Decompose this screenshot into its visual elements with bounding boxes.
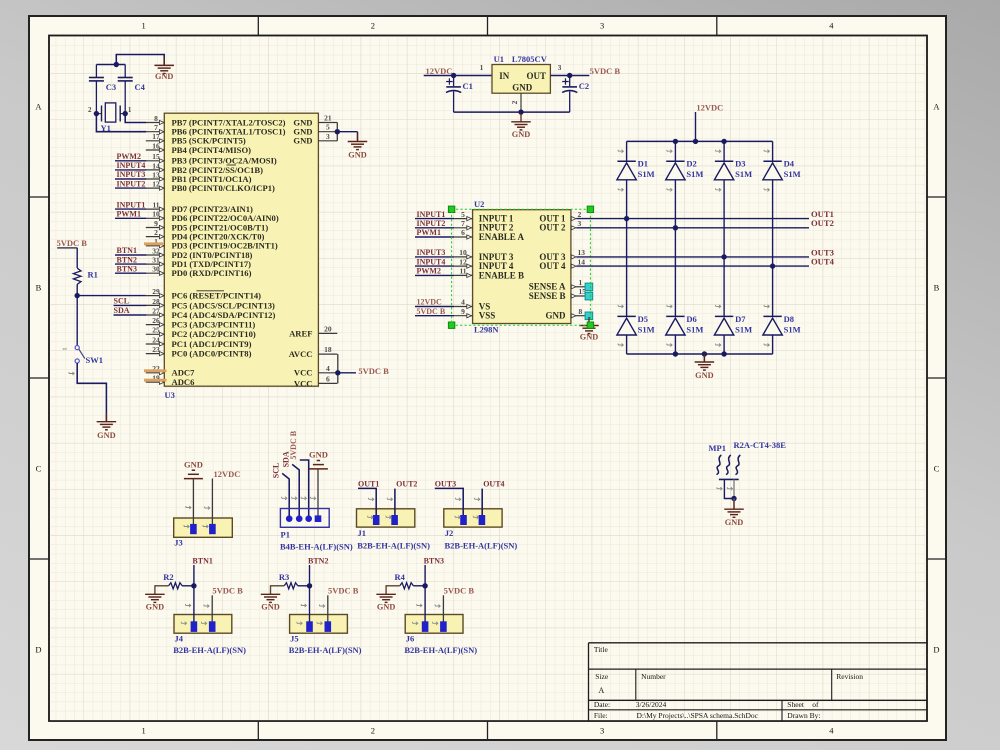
- svg-text:INPUT1: INPUT1: [117, 200, 146, 209]
- ground (P1): [309, 450, 328, 519]
- thermostat MP1 R2A-CT4-38E: [709, 440, 787, 499]
- ground (bridge): [695, 353, 715, 380]
- svg-text:30: 30: [152, 265, 160, 274]
- svg-text:PWM1: PWM1: [117, 210, 141, 219]
- svg-text:20: 20: [324, 324, 332, 333]
- U3 pin 13 PB1: [146, 170, 252, 184]
- svg-text:PD0 (RXD/PCINT16): PD0 (RXD/PCINT16): [172, 268, 252, 278]
- net label INPUT1 (U2): [415, 210, 454, 219]
- svg-text:B2B-EH-A(LF)(SN): B2B-EH-A(LF)(SN): [173, 645, 246, 655]
- wire OUT2: [576, 227, 809, 229]
- svg-text:GND: GND: [184, 459, 203, 469]
- svg-text:PC5 (ADC5/SCL/PCINT13): PC5 (ADC5/SCL/PCINT13): [172, 300, 276, 310]
- svg-text:26: 26: [152, 316, 160, 325]
- U3 pin 31 PD1: [146, 256, 251, 270]
- svg-text:C4: C4: [135, 82, 146, 92]
- net label BTN1: [192, 556, 212, 621]
- green marker squares U2: [448, 206, 593, 328]
- svg-text:12VDC: 12VDC: [214, 469, 241, 479]
- svg-text:BTN1: BTN1: [192, 556, 212, 565]
- svg-text:PWM2: PWM2: [117, 152, 141, 161]
- svg-text:Revision: Revision: [836, 672, 863, 681]
- svg-text:S1M: S1M: [735, 324, 752, 334]
- connector J1: [357, 509, 431, 551]
- U2 pin 8 GND: [546, 307, 586, 321]
- svg-text:B2B-EH-A(LF)(SN): B2B-EH-A(LF)(SN): [404, 645, 477, 655]
- svg-text:B2B-EH-A(LF)(SN): B2B-EH-A(LF)(SN): [357, 541, 430, 551]
- U3 pin 14 PB2: [146, 161, 263, 175]
- svg-text:PB4 (PCINT4/MISO): PB4 (PCINT4/MISO): [172, 145, 252, 155]
- svg-text:D8: D8: [784, 314, 794, 324]
- svg-text:of: of: [812, 700, 819, 709]
- svg-text:R1: R1: [88, 270, 98, 280]
- svg-text:4: 4: [326, 364, 330, 373]
- svg-text:L7805CV: L7805CV: [512, 54, 548, 64]
- svg-text:13: 13: [578, 248, 586, 257]
- svg-text:BTN3: BTN3: [117, 264, 137, 273]
- svg-text:11: 11: [152, 201, 159, 210]
- svg-text:C: C: [934, 464, 940, 474]
- svg-text:ADC6: ADC6: [172, 377, 196, 387]
- wire bridge columns: [627, 180, 773, 354]
- svg-text:R2: R2: [163, 572, 173, 582]
- svg-text:B2B-EH-A(LF)(SN): B2B-EH-A(LF)(SN): [445, 541, 518, 551]
- svg-text:R2A-CT4-38E: R2A-CT4-38E: [734, 440, 787, 450]
- svg-text:Drawn By:: Drawn By:: [787, 711, 820, 720]
- wire U1.OUT to 5VDC B: [550, 75, 589, 77]
- U3 pin 18 AVCC: [289, 345, 338, 359]
- ground (U1): [511, 113, 531, 139]
- U3 pin 12 PB0: [146, 180, 275, 194]
- svg-text:OUT4: OUT4: [483, 480, 504, 489]
- connector J6: [404, 604, 477, 655]
- net label BTN2: [115, 255, 146, 264]
- svg-text:VCC: VCC: [294, 368, 313, 378]
- svg-text:INPUT4: INPUT4: [417, 257, 446, 266]
- U3 pin 1 PD3: [146, 237, 278, 251]
- svg-text:GND: GND: [97, 431, 115, 440]
- junction (U3 gnd): [335, 129, 340, 134]
- net label PWM2: [115, 152, 146, 161]
- diode D3: [714, 150, 752, 192]
- U3 pin 2 PD4: [146, 228, 265, 242]
- svg-text:OUT: OUT: [527, 71, 547, 81]
- svg-text:OUT4: OUT4: [811, 257, 835, 267]
- svg-text:ENABLE B: ENABLE B: [479, 270, 524, 280]
- svg-text:12: 12: [152, 180, 160, 189]
- svg-text:PB0 (PCINT0/CLKO/ICP1): PB0 (PCINT0/CLKO/ICP1): [172, 183, 276, 193]
- U3 pin 24 PC1: [146, 335, 252, 349]
- svg-text:MP1: MP1: [709, 443, 726, 453]
- svg-text:BTN3: BTN3: [424, 556, 444, 565]
- svg-text:S1M: S1M: [686, 169, 703, 179]
- U2 pin 9 VSS: [454, 307, 495, 321]
- microcontroller U3 ATmega328: [146, 113, 337, 400]
- net label INPUT2: [115, 179, 146, 188]
- resistor R1: [73, 268, 97, 284]
- resistor R4: [395, 572, 426, 589]
- svg-text:C1: C1: [463, 81, 473, 91]
- U3 pin 15 PB3: [146, 152, 277, 166]
- U3 pin 8 PB7: [146, 114, 286, 128]
- svg-text:5VDC B: 5VDC B: [444, 585, 475, 595]
- U2 pin 7 INPUT 2: [454, 219, 514, 233]
- resistor R2: [163, 572, 194, 589]
- wire U3 GND pins bus: [337, 123, 357, 142]
- svg-text:32: 32: [152, 246, 160, 255]
- svg-text:B2B-EH-A(LF)(SN): B2B-EH-A(LF)(SN): [289, 645, 362, 655]
- svg-text:16: 16: [152, 141, 160, 150]
- U2 pin 13 OUT 3: [539, 248, 585, 262]
- U3 pin 6 VCC: [294, 374, 337, 388]
- wire SW1 to ground: [77, 363, 106, 422]
- svg-text:2: 2: [510, 100, 519, 104]
- svg-text:12VDC: 12VDC: [426, 66, 453, 76]
- capacitor C3: [89, 65, 116, 114]
- title block: [589, 643, 928, 721]
- svg-text:A: A: [933, 102, 940, 112]
- wire 5VDC B to R1: [76, 248, 78, 268]
- svg-text:PC2 (ADC2/PCINT10): PC2 (ADC2/PCINT10): [172, 329, 256, 339]
- net label BTN3: [424, 556, 444, 621]
- svg-text:D: D: [35, 645, 41, 655]
- svg-text:8: 8: [579, 307, 583, 316]
- U3 pin 21 GND: [293, 114, 337, 128]
- svg-text:23: 23: [152, 345, 160, 354]
- wire U1 ground rail: [454, 111, 570, 113]
- svg-text:J2: J2: [445, 528, 454, 538]
- svg-text:18: 18: [324, 345, 332, 354]
- net label INPUT4 (U2): [415, 257, 454, 266]
- junction (out rows): [624, 216, 775, 269]
- U2 pin 12 INPUT 4: [454, 257, 514, 271]
- error marker ADC7: [144, 369, 167, 372]
- svg-text:S1M: S1M: [784, 169, 801, 179]
- svg-text:14: 14: [578, 257, 586, 266]
- svg-text:INPUT2: INPUT2: [417, 219, 446, 228]
- svg-text:PC6 (RESET/PCINT14): PC6 (RESET/PCINT14): [172, 291, 262, 301]
- svg-text:U1: U1: [494, 54, 504, 64]
- svg-text:IN: IN: [499, 71, 510, 81]
- svg-text:ENABLE A: ENABLE A: [479, 232, 525, 242]
- svg-text:15: 15: [152, 152, 160, 161]
- svg-text:11: 11: [459, 267, 466, 276]
- svg-text:P1: P1: [281, 530, 290, 540]
- svg-text:Sheet: Sheet: [787, 700, 805, 709]
- net label INPUT3: [115, 170, 146, 179]
- net label OUT2 (J1): [387, 480, 417, 515]
- wire R1 to SW1 / PC6: [77, 284, 146, 345]
- svg-text:INPUT1: INPUT1: [417, 210, 446, 219]
- junction (Y1 pins): [94, 111, 128, 116]
- svg-text:GND: GND: [725, 518, 743, 527]
- net label PWM1: [115, 210, 146, 219]
- svg-text:D2: D2: [686, 159, 696, 169]
- svg-text:GND: GND: [293, 136, 312, 146]
- U3 pin 32 PD2: [146, 246, 253, 260]
- net label OUT1 (J1): [358, 480, 379, 515]
- connector J3: [174, 518, 233, 547]
- U3 pin 28 PC5: [146, 297, 275, 311]
- wire OUT1: [576, 218, 809, 220]
- svg-text:3: 3: [600, 21, 604, 31]
- svg-text:L298N: L298N: [474, 325, 499, 335]
- svg-text:1: 1: [579, 278, 583, 287]
- svg-text:GND: GND: [348, 151, 366, 160]
- svg-text:8: 8: [154, 114, 158, 123]
- svg-text:J6: J6: [406, 633, 415, 643]
- svg-text:1: 1: [128, 106, 132, 114]
- svg-text:12: 12: [459, 257, 467, 266]
- svg-text:D6: D6: [686, 314, 696, 324]
- net label SCL (P1): [271, 463, 289, 519]
- svg-text:R3: R3: [279, 572, 289, 582]
- svg-text:D1: D1: [638, 159, 648, 169]
- svg-text:A: A: [35, 102, 42, 112]
- svg-text:S1M: S1M: [638, 324, 655, 334]
- svg-text:3/26/2024: 3/26/2024: [636, 700, 667, 709]
- wire bridge bottom rail: [627, 354, 773, 362]
- power port 5VDC B (P1): [289, 430, 309, 518]
- junction (MP1): [731, 496, 736, 501]
- net label OUT3 (J2): [435, 480, 463, 515]
- svg-text:D:\My Projects\..\SPSA schema.: D:\My Projects\..\SPSA schema.SchDoc: [637, 711, 759, 720]
- resistor R3: [279, 572, 310, 589]
- svg-text:S1M: S1M: [686, 324, 703, 334]
- svg-text:INPUT3: INPUT3: [417, 248, 446, 257]
- motor driver U2 L298N: [454, 199, 586, 335]
- svg-text:6: 6: [461, 228, 465, 237]
- svg-text:1: 1: [141, 726, 145, 736]
- svg-text:D5: D5: [638, 314, 648, 324]
- error marker PD3: [144, 242, 163, 245]
- svg-text:S1M: S1M: [638, 169, 655, 179]
- svg-text:17: 17: [152, 132, 160, 141]
- ground (U2 pin8): [579, 317, 599, 342]
- svg-text:3: 3: [558, 63, 562, 72]
- ground (J3): [184, 459, 203, 478]
- U3 pin 25 PC2: [146, 326, 256, 340]
- svg-text:2: 2: [371, 726, 375, 736]
- power port 5VDC B (U2): [415, 307, 454, 316]
- power port 5VDC B (regulator output): [590, 66, 621, 76]
- svg-text:10: 10: [152, 210, 160, 219]
- U3 pin 26 PC3: [146, 316, 256, 330]
- svg-text:29: 29: [152, 287, 160, 296]
- net label BTN2: [308, 556, 328, 621]
- wire MP1 to ground: [733, 499, 735, 510]
- net label SDA: [114, 306, 147, 315]
- error marker ADC6: [144, 379, 167, 382]
- junction (C1): [451, 73, 456, 78]
- svg-text:3: 3: [600, 726, 604, 736]
- svg-text:Number: Number: [641, 672, 666, 681]
- svg-text:PC3 (ADC3/PCINT11): PC3 (ADC3/PCINT11): [172, 320, 256, 330]
- ground (R4): [376, 585, 399, 611]
- svg-text:1: 1: [480, 63, 484, 72]
- svg-text:4: 4: [829, 726, 834, 736]
- svg-text:9: 9: [461, 307, 465, 316]
- svg-text:21: 21: [324, 114, 332, 123]
- wire bridge top rail: [627, 141, 773, 161]
- U3 pin 20 AREF: [289, 324, 337, 338]
- U2 pin 15 SENSE B: [529, 287, 587, 301]
- svg-text:B: B: [36, 283, 42, 293]
- junction (BTN3 node): [422, 583, 427, 588]
- svg-text:OUT 2: OUT 2: [539, 223, 566, 233]
- wire OUT3: [576, 256, 809, 258]
- ground (U3): [348, 133, 368, 160]
- net label BTN1: [115, 246, 146, 255]
- svg-text:4: 4: [461, 298, 465, 307]
- U2 pin 10 INPUT 3: [454, 248, 514, 262]
- svg-text:PWM2: PWM2: [417, 267, 441, 276]
- svg-text:24: 24: [152, 335, 160, 344]
- svg-text:OUT1: OUT1: [358, 480, 379, 489]
- svg-text:2: 2: [88, 106, 92, 114]
- svg-text:5VDC B: 5VDC B: [289, 430, 298, 459]
- diode D2: [666, 150, 704, 192]
- svg-text:5VDC B: 5VDC B: [328, 585, 359, 595]
- svg-text:OUT3: OUT3: [435, 480, 456, 489]
- svg-text:D4: D4: [784, 159, 795, 169]
- U2 pin 2 OUT 1: [539, 210, 581, 224]
- svg-text:VSS: VSS: [479, 311, 496, 321]
- svg-text:D7: D7: [735, 314, 746, 324]
- svg-text:D3: D3: [735, 159, 745, 169]
- U3 pin 10 PD6: [146, 210, 279, 224]
- U3 pin 11 PD7: [146, 201, 253, 215]
- U3 pin 30 PD0: [146, 265, 252, 279]
- net label OUT2: [811, 218, 834, 228]
- U2 pin 1 SENSE A: [529, 278, 586, 292]
- U2 pin 4 VS: [454, 298, 490, 312]
- power port 12VDC (J3): [214, 469, 241, 479]
- net label PWM1 (U2): [415, 228, 454, 237]
- U3 pin 22 ADC7: [146, 364, 195, 378]
- power port 5VDC B (U3 supply): [358, 366, 389, 376]
- diode D6: [666, 305, 704, 347]
- U2 pin 11 ENABLE B: [454, 267, 524, 281]
- svg-text:GND: GND: [146, 603, 164, 612]
- junction (bottom rail): [673, 351, 727, 356]
- switch SW1: [62, 346, 103, 376]
- wire crystal top rail: [96, 55, 164, 68]
- connector J4: [173, 604, 246, 655]
- net label OUT3: [811, 247, 834, 257]
- svg-text:2: 2: [578, 210, 582, 219]
- junction (BTN2 node): [307, 583, 312, 588]
- ground (R2): [145, 585, 168, 611]
- svg-text:2: 2: [154, 228, 158, 237]
- power port 12VDC (bridge): [696, 102, 724, 141]
- svg-text:C3: C3: [106, 82, 116, 92]
- svg-text:5VDC B: 5VDC B: [590, 66, 621, 76]
- junction (RESET node): [75, 293, 80, 298]
- power port 12VDC (regulator input): [426, 66, 453, 76]
- svg-text:2: 2: [371, 21, 375, 31]
- svg-text:D: D: [933, 645, 939, 655]
- svg-text:GND: GND: [546, 311, 567, 321]
- svg-text:GND: GND: [377, 603, 395, 612]
- ground (SW1): [97, 413, 117, 440]
- connector J2: [444, 509, 518, 551]
- svg-text:3: 3: [326, 132, 330, 141]
- junction (top rail): [673, 139, 727, 144]
- svg-text:5VDC B: 5VDC B: [212, 585, 243, 595]
- svg-text:SCL: SCL: [114, 297, 130, 306]
- svg-text:J1: J1: [358, 528, 367, 538]
- net label INPUT2 (U2): [415, 219, 454, 228]
- power port 12VDC (U2): [415, 298, 454, 307]
- power port 5VDC B (reset): [57, 238, 88, 248]
- svg-text:GND: GND: [695, 371, 713, 380]
- svg-text:5VDC B: 5VDC B: [358, 366, 389, 376]
- svg-text:GND: GND: [261, 603, 279, 612]
- svg-text:Date:: Date:: [594, 700, 610, 709]
- svg-text:B4B-EH-A(LF)(SN): B4B-EH-A(LF)(SN): [280, 541, 353, 551]
- wire U3 VCC bus to 5VDC B: [338, 354, 356, 383]
- svg-text:OUT 4: OUT 4: [539, 261, 566, 271]
- svg-text:25: 25: [152, 326, 160, 335]
- svg-text:SW1: SW1: [86, 355, 103, 365]
- svg-text:10: 10: [459, 248, 467, 257]
- wire 12VDC to U1.IN: [424, 75, 492, 77]
- net label OUT4 (J2): [475, 480, 505, 515]
- svg-text:OUT2: OUT2: [396, 480, 417, 489]
- svg-text:GND: GND: [155, 72, 173, 81]
- svg-text:14: 14: [152, 161, 160, 170]
- diode D4: [763, 150, 801, 192]
- svg-text:1: 1: [62, 347, 69, 350]
- crystal Y1: [88, 103, 132, 133]
- U3 pin 23 PC0: [146, 345, 252, 359]
- wire 12VDC to J3.2: [203, 479, 212, 529]
- svg-text:S1M: S1M: [784, 324, 801, 334]
- svg-text:12VDC: 12VDC: [696, 102, 723, 112]
- svg-text:VCC: VCC: [294, 378, 313, 388]
- U3 pin 9 PD5: [146, 219, 269, 233]
- ground (R3): [261, 585, 284, 611]
- svg-text:File:: File:: [594, 711, 608, 720]
- junction (U3 vcc): [335, 370, 340, 375]
- svg-text:INPUT3: INPUT3: [117, 170, 146, 179]
- net label SDA (P1): [281, 451, 299, 519]
- svg-text:AVCC: AVCC: [289, 349, 313, 359]
- svg-text:R4: R4: [395, 572, 406, 582]
- svg-text:GND: GND: [309, 450, 328, 460]
- svg-text:5VDC B: 5VDC B: [57, 238, 88, 248]
- svg-text:BTN2: BTN2: [117, 255, 137, 264]
- U2 pin 14 OUT 4: [539, 257, 585, 271]
- svg-text:BTN1: BTN1: [117, 246, 137, 255]
- U3 pin 27 PC4: [146, 306, 276, 320]
- U2 pin 6 ENABLE A: [454, 228, 524, 242]
- net label BTN3: [115, 264, 146, 273]
- svg-text:GND: GND: [512, 130, 530, 139]
- svg-text:5: 5: [326, 123, 330, 132]
- connector P1: [280, 497, 353, 552]
- svg-text:9: 9: [154, 219, 158, 228]
- svg-text:5: 5: [461, 210, 465, 219]
- svg-text:INPUT4: INPUT4: [117, 161, 146, 170]
- U3 pin 16 PB4: [146, 141, 251, 155]
- svg-text:J5: J5: [290, 633, 299, 643]
- capacitor C1: [446, 76, 473, 113]
- U3 pin 5 GND: [293, 123, 337, 137]
- power port 5VDC B (J5): [328, 585, 359, 621]
- svg-text:1: 1: [141, 21, 145, 31]
